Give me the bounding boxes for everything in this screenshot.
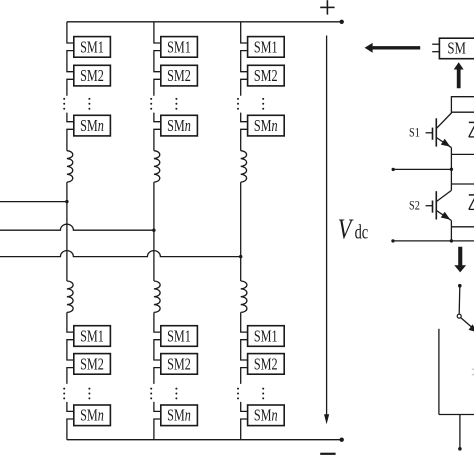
node: half-bridge midpoint bbox=[450, 168, 453, 171]
thick arrow from SM box pointing left bbox=[365, 43, 421, 53]
wire: phase c upper SM1 to SM2 bbox=[241, 51, 248, 72]
submodule SM2 (phase b upper arm) bbox=[161, 65, 198, 86]
+ DC rail bbox=[67, 21, 342, 23]
submodule SM1 (phase c lower arm) bbox=[248, 326, 285, 347]
wire: capacitor branch bottom bbox=[439, 414, 474, 416]
wire: phase a upper bus to SMn bbox=[67, 113, 74, 122]
wire: phase c upper bus from + rail to SM1 bbox=[241, 22, 248, 43]
svg-text:SMn: SMn bbox=[167, 407, 191, 425]
node: bottom rail junction bbox=[450, 239, 453, 242]
ellipsis on phase a lower bus bbox=[63, 388, 65, 400]
wire: stub to D1 anode bbox=[451, 153, 474, 155]
wire: phase b lower bus to SMn bbox=[154, 402, 161, 412]
submodule SM2 (phase b lower arm) bbox=[161, 354, 198, 375]
ellipsis under phase b lower SM stack bbox=[175, 388, 177, 400]
ellipsis on phase b upper bus bbox=[150, 98, 152, 110]
wire: phase c lower SM2 down bbox=[241, 368, 248, 384]
arm inductor (phase b upper) bbox=[154, 151, 160, 182]
ellipsis under phase b upper SM stack bbox=[175, 98, 177, 110]
wire: switch model bottom lead bbox=[459, 415, 461, 448]
svg-text:dc: dc bbox=[355, 221, 369, 243]
wire: phase a lower SMn to - rail bbox=[67, 419, 74, 440]
wire: phase c lower bus to SMn bbox=[241, 402, 248, 412]
wire: phase c upper bus to SMn bbox=[241, 113, 248, 122]
ellipsis under phase c lower SM stack bbox=[262, 388, 264, 400]
diode D1 (partly cropped) bbox=[469, 122, 474, 136]
wire: half-bridge upper-left corner vertical bbox=[450, 96, 452, 113]
svg-text:SMn: SMn bbox=[167, 117, 191, 135]
node: + DC terminal bbox=[340, 20, 344, 24]
submodule SMn (phase a upper arm) bbox=[74, 115, 111, 136]
svg-text:SMn: SMn bbox=[80, 407, 104, 425]
wire: phase c lower SM1 to SM2 bbox=[241, 340, 248, 360]
ellipsis on phase b lower bus bbox=[150, 388, 152, 400]
svg-text:SM1: SM1 bbox=[254, 39, 278, 57]
submodule SMn (phase c lower arm) bbox=[248, 405, 285, 426]
svg-text:SM2: SM2 bbox=[167, 67, 191, 85]
svg-text:SM2: SM2 bbox=[254, 67, 278, 85]
SM detail box bbox=[432, 38, 474, 59]
arm inductor (phase a lower) bbox=[67, 281, 73, 312]
submodule SMn (phase b upper arm) bbox=[161, 115, 198, 136]
submodule SMn (phase b lower arm) bbox=[161, 405, 198, 426]
wire: phase a lower SM2 down bbox=[67, 368, 74, 384]
wire: phase c upper SMn to arm inductor bbox=[241, 129, 248, 150]
submodule SMn (phase a lower arm) bbox=[74, 405, 111, 426]
wire: phase a lower SM1 to SM2 bbox=[67, 340, 74, 360]
wire: SM output terminal line bbox=[393, 168, 451, 170]
wire: phase b upper bus from + rail to SM1 bbox=[154, 22, 161, 43]
arm inductor (phase c lower) bbox=[241, 281, 247, 312]
node: SM output terminal bbox=[392, 168, 395, 171]
switch blade bbox=[461, 318, 474, 333]
submodule SM2 (phase a upper arm) bbox=[74, 65, 111, 86]
submodule SMn (phase c upper arm) bbox=[248, 115, 285, 136]
node: phase b AC connection bbox=[152, 229, 155, 232]
ellipsis under phase a lower SM stack bbox=[88, 388, 90, 400]
svg-text:SM1: SM1 bbox=[167, 328, 191, 346]
svg-text:SM2: SM2 bbox=[80, 67, 104, 85]
node: phase c AC connection bbox=[239, 255, 242, 258]
arm inductor (phase c upper) bbox=[241, 151, 247, 182]
wire: phase a leg midsection vertical bbox=[66, 182, 68, 281]
minus terminal label bbox=[320, 453, 335, 455]
node: phase a AC connection bbox=[65, 200, 68, 203]
wire: phase a lower bus to SMn bbox=[67, 402, 74, 412]
wire: phase a lower inductor to SM1 bbox=[67, 312, 74, 332]
submodule SM1 (phase b upper arm) bbox=[161, 37, 198, 58]
wire: half-bridge top rail to capacitor bbox=[451, 96, 474, 98]
label Vdc bbox=[338, 214, 369, 245]
svg-text:SM2: SM2 bbox=[254, 356, 278, 374]
Vdc measurement line with down arrow bbox=[324, 36, 329, 425]
wire: phase b lower SMn to - rail bbox=[154, 419, 161, 440]
ellipsis under phase c upper SM stack bbox=[262, 98, 264, 110]
AC phase line b (hops phase a leg) bbox=[0, 224, 154, 230]
wire: phase b upper bus to SMn bbox=[154, 113, 161, 122]
svg-text:SM2: SM2 bbox=[167, 356, 191, 374]
submodule SM1 (phase a upper arm) bbox=[74, 37, 111, 58]
svg-text:SMn: SMn bbox=[254, 407, 278, 425]
ellipsis on phase a upper bus bbox=[63, 98, 65, 110]
node: - DC terminal bbox=[340, 438, 344, 442]
svg-text:SM1: SM1 bbox=[167, 39, 191, 57]
wire: S1 emitter to S2 collector bbox=[450, 148, 452, 191]
wire: phase b upper SM2 down bbox=[154, 79, 161, 96]
wire: phase a upper SM1 to SM2 bbox=[67, 51, 74, 72]
arm inductor (phase b lower) bbox=[154, 281, 160, 312]
wire: phase a upper bus from + rail to SM1 bbox=[67, 22, 74, 43]
wire: stub to D2 anode bbox=[451, 226, 474, 228]
svg-text:SM1: SM1 bbox=[80, 328, 104, 346]
IGBT S2 bbox=[426, 190, 452, 220]
faint cropped capacitor label bbox=[472, 369, 474, 374]
svg-text:SMn: SMn bbox=[254, 117, 278, 135]
diode D2 (partly cropped) bbox=[469, 195, 474, 210]
wire: phase b leg midsection vertical bbox=[153, 182, 155, 281]
thick arrow pointing down at switch model bbox=[454, 247, 466, 273]
wire: phase c lower SMn to - rail bbox=[241, 419, 248, 440]
svg-text:SM1: SM1 bbox=[80, 39, 104, 57]
wire: phase a upper SMn to arm inductor bbox=[67, 129, 74, 150]
svg-text:SM2: SM2 bbox=[80, 356, 104, 374]
wire: phase b lower SM2 down bbox=[154, 368, 161, 384]
node: switch model bottom terminal bbox=[458, 447, 462, 451]
- DC rail bbox=[67, 439, 342, 441]
wire: phase b lower SM1 to SM2 bbox=[154, 340, 161, 360]
svg-text:V: V bbox=[338, 214, 354, 245]
svg-text:SM: SM bbox=[447, 40, 466, 58]
submodule SM2 (phase c lower arm) bbox=[248, 354, 285, 375]
svg-text:SMn: SMn bbox=[80, 117, 104, 135]
wire: phase b lower inductor to SM1 bbox=[154, 312, 161, 332]
wire: half-bridge bottom rail bbox=[393, 240, 474, 242]
arm inductor (phase a upper) bbox=[67, 151, 73, 182]
wire: stub to D2 cathode bbox=[451, 183, 474, 185]
wire: phase b upper SM1 to SM2 bbox=[154, 51, 161, 72]
ellipsis on phase c upper bus bbox=[237, 98, 239, 110]
plus terminal label bbox=[320, 0, 334, 14]
wire: phase c upper SM2 down bbox=[241, 79, 248, 96]
svg-text:SM1: SM1 bbox=[254, 328, 278, 346]
submodule SM2 (phase c upper arm) bbox=[248, 65, 285, 86]
ellipsis under phase a upper SM stack bbox=[88, 98, 90, 110]
node: SM bottom terminal bbox=[391, 239, 394, 242]
AC phase line c (hops phase a and b legs) bbox=[0, 251, 241, 257]
wire: diode D1 cathode connection bbox=[451, 111, 474, 113]
wire: phase b upper SMn to arm inductor bbox=[154, 129, 161, 150]
submodule SM2 (phase a lower arm) bbox=[74, 354, 111, 375]
wire: capacitor branch left side bbox=[438, 329, 440, 415]
wire: phase a upper SM2 down bbox=[67, 79, 74, 96]
thick arrow pointing up at SM box bbox=[454, 62, 464, 88]
svg-text:S2: S2 bbox=[409, 200, 420, 213]
ellipsis on phase c lower bus bbox=[237, 388, 239, 400]
submodule SM1 (phase b lower arm) bbox=[161, 326, 198, 347]
wire: S2 emitter to bottom rail bbox=[450, 221, 452, 241]
switch pivot bbox=[457, 314, 461, 318]
IGBT S1 bbox=[426, 113, 452, 148]
wire: switch pole lead bbox=[458, 286, 461, 314]
svg-text:S1: S1 bbox=[409, 127, 420, 140]
wire: phase c lower inductor to SM1 bbox=[241, 312, 248, 332]
node: switch model top terminal bbox=[458, 284, 462, 288]
submodule SM1 (phase a lower arm) bbox=[74, 326, 111, 347]
submodule SM1 (phase c upper arm) bbox=[248, 37, 285, 58]
AC phase line a bbox=[0, 201, 67, 203]
wire: phase c leg midsection vertical bbox=[240, 182, 242, 281]
